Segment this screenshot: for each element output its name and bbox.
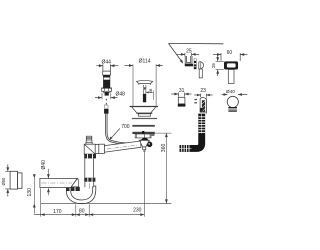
dimension 170 <box>34 214 145 216</box>
seal cup <box>178 97 185 104</box>
control knob <box>103 71 111 75</box>
basket plug cup <box>185 56 192 64</box>
pin <box>194 59 196 69</box>
flange bowl <box>130 106 158 108</box>
wall outlet pipe <box>40 178 77 187</box>
svg-text:25: 25 <box>186 49 192 55</box>
svg-text:Ø48: Ø48 <box>115 92 125 98</box>
flat gasket 2 <box>132 125 155 127</box>
inlet tee stub <box>86 136 92 140</box>
ball joint <box>227 96 238 107</box>
tee nut <box>84 154 96 158</box>
svg-text:Ø40: Ø40 <box>41 160 47 170</box>
svg-text:Ø114: Ø114 <box>139 58 151 64</box>
overflow elbow <box>200 98 206 113</box>
dimension 130 <box>33 176 35 214</box>
inlet tee body <box>84 144 95 154</box>
dimension 60 overflow cover <box>213 54 221 56</box>
overflow cover front view <box>224 61 238 69</box>
drain flange plate <box>137 80 153 83</box>
dimension 80 <box>76 213 80 216</box>
outlet elbow <box>70 179 79 188</box>
strainer mechanism <box>142 138 148 143</box>
overflow cover side view <box>199 62 204 69</box>
corrugated hose <box>180 114 202 149</box>
dimension 25 basket plug <box>177 53 185 55</box>
dimension O44 <box>96 65 103 67</box>
dimension 230 <box>89 213 93 216</box>
svg-text:Ø50: Ø50 <box>1 177 6 186</box>
strainer flange <box>132 132 154 134</box>
svg-text:23: 23 <box>200 88 206 94</box>
svg-text:170: 170 <box>53 209 62 215</box>
svg-text:Ø44: Ø44 <box>101 59 111 65</box>
svg-text:230: 230 <box>133 207 142 213</box>
dimension 23 overflow elbow <box>194 94 200 96</box>
bottom reference line <box>41 202 172 204</box>
dimension 360 <box>155 132 172 134</box>
svg-text:31: 31 <box>179 88 185 94</box>
flange stem <box>143 85 145 94</box>
dimension O50 wall flange <box>5 171 10 173</box>
dimension O48 <box>95 97 102 99</box>
strainer body <box>135 134 151 138</box>
svg-text:80: 80 <box>79 209 85 215</box>
bottom extension lines <box>40 188 42 216</box>
U-bend trap <box>66 186 96 204</box>
trap inlet nut <box>66 187 80 191</box>
svg-text:130: 130 <box>27 188 33 197</box>
pipe below union <box>84 182 86 188</box>
control rod <box>105 99 107 101</box>
sloped pipe nut <box>99 144 105 153</box>
svg-text:60: 60 <box>227 50 233 56</box>
union nut <box>84 178 95 182</box>
leader arrow to basket plug <box>169 44 182 61</box>
vertical pipe <box>84 158 86 177</box>
dimension O114 <box>125 65 134 67</box>
small pins <box>194 99 197 100</box>
dimension O40 ball joint <box>222 94 228 96</box>
svg-text:360: 360 <box>161 143 167 152</box>
svg-text:25: 25 <box>211 63 216 68</box>
dimension 25 overflow cover height <box>217 55 219 61</box>
strainer funnel outlet <box>139 140 149 147</box>
control cable <box>106 114 139 144</box>
svg-text:Ø40: Ø40 <box>226 89 235 95</box>
sloped pipe <box>104 141 141 152</box>
svg-text:700: 700 <box>121 124 130 130</box>
wall flange <box>10 171 18 189</box>
reference line top <box>168 42 223 44</box>
dimension 31 seal <box>171 93 178 95</box>
flat gasket 1 <box>132 118 157 119</box>
